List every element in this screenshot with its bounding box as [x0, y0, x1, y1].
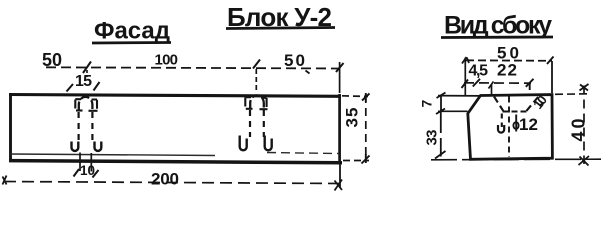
diameter symbol — [513, 115, 518, 132]
40 bottom tick — [579, 156, 590, 166]
facade top dimension line — [46, 67, 340, 68]
side view anchor hook — [498, 125, 504, 133]
50 dim right tick — [547, 57, 554, 65]
svg-text:4,5: 4,5 — [469, 63, 489, 80]
lifting loop 2 recess brackets — [245, 97, 267, 109]
facade right edge extension to 200 dim — [339, 163, 341, 188]
label 10 slanted on groove slope — [530, 92, 550, 112]
200 dim right tick — [335, 180, 343, 191]
35 dim end ticks — [362, 93, 370, 102]
lifting loop 2 legs — [250, 110, 264, 137]
side view top dimension 50 — [466, 59, 552, 62]
lifting loop 1 recess brackets — [75, 99, 97, 111]
extension below 100/50 tick — [255, 69, 257, 92]
dimension 10 ticks — [74, 169, 80, 177]
tick at right of 22 — [526, 79, 534, 90]
dimension 7 left side — [440, 95, 442, 112]
lifting loop 1 legs — [79, 112, 93, 141]
title Блок У-2 — [226, 2, 335, 32]
loop 1 leg extensions below block — [80, 153, 91, 172]
lifting loop 2 arc — [250, 95, 264, 109]
side view block outline — [468, 95, 553, 160]
lifting loop 1 arc — [79, 97, 93, 111]
extension to groove left corner — [489, 82, 494, 97]
stray tick after right 50 — [306, 71, 310, 74]
right end tick of top dim — [336, 63, 344, 72]
tick on groove slope — [540, 103, 545, 106]
side view groove (dashed hidden line) — [494, 97, 539, 112]
svg-text:Вид сбоку: Вид сбоку — [444, 12, 552, 40]
40 top tick — [580, 84, 589, 91]
dimension 40 right side — [583, 86, 585, 165]
svg-text:7: 7 — [419, 100, 435, 108]
lifting loop 2 hooks — [240, 136, 247, 151]
svg-text:33: 33 — [424, 130, 441, 146]
tick tail below 50/100 — [86, 70, 88, 77]
tick left end — [462, 80, 469, 89]
svg-text:15: 15 — [75, 73, 92, 90]
200 dim left tick — [3, 176, 7, 185]
facade block outline — [9, 94, 342, 163]
facade inner thin line — [10, 153, 339, 156]
svg-text:22: 22 — [497, 61, 517, 80]
33 bottom tick — [435, 151, 446, 159]
7 bottom tick and extension to chamfer — [436, 109, 445, 115]
facade bottom dimension line 200 — [4, 182, 339, 184]
right extension line to corner — [339, 62, 341, 93]
dimension 35 right of facade — [342, 95, 369, 161]
svg-text:50: 50 — [42, 50, 62, 70]
svg-text:10: 10 — [80, 163, 95, 178]
lifting loop 1 hooks — [72, 142, 79, 151]
side view anchor center line — [508, 97, 510, 158]
side view bottom extension line — [431, 158, 601, 161]
left extension from 50 dim — [464, 58, 466, 97]
svg-text:100: 100 — [155, 52, 179, 69]
dimension 15 ticks — [67, 84, 74, 92]
tick at 4,5/22 — [473, 79, 480, 87]
tick at 50/100 — [83, 62, 91, 74]
svg-text:35: 35 — [343, 108, 362, 128]
tick at 100/50 — [253, 60, 260, 69]
side view anchor leg — [501, 114, 503, 128]
svg-text:200: 200 — [151, 170, 179, 189]
svg-text:Фасад: Фасад — [94, 18, 170, 45]
dimension 33 left side — [440, 111, 442, 157]
7 top tick and extension — [437, 93, 446, 99]
svg-text:12: 12 — [519, 115, 538, 134]
40 extension from block top right — [555, 93, 591, 96]
side view second dim line 4,5 / 22 — [464, 82, 531, 84]
right extension from 50 dim to block corner — [551, 61, 553, 93]
50 dim left arrow tick — [462, 57, 469, 64]
title Фасад — [92, 18, 171, 45]
title Вид сбоку — [441, 12, 553, 40]
